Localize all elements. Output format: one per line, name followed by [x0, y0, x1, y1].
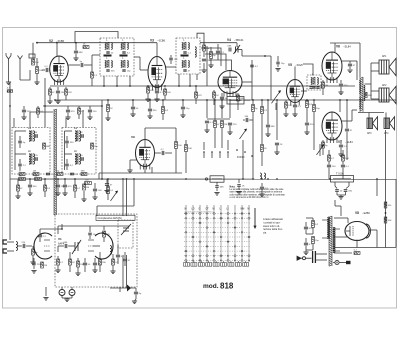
- resistor R20: [185, 145, 188, 152]
- resistor R1 input: [32, 59, 35, 65]
- capacitor T1c: [106, 70, 109, 71]
- svg-text:- EL84: - EL84: [343, 45, 351, 49]
- wire AP2 b: [371, 98, 379, 100]
- resistor R24: [261, 107, 264, 114]
- ground antenna: [6, 82, 11, 85]
- ground R16: [105, 118, 110, 121]
- resistor R39: [69, 259, 72, 265]
- capacitor C28b: [246, 118, 248, 122]
- capacitor C21 V7: [339, 145, 343, 147]
- wire x252 up: [251, 60, 253, 82]
- wire vertical x207: [206, 46, 208, 86]
- svg-text:10K: 10K: [98, 264, 102, 266]
- ground V5 cathode: [283, 114, 288, 117]
- resistor R11: [213, 92, 216, 98]
- wire ant in bottom: [7, 250, 10, 252]
- core T1d: [123, 60, 125, 68]
- ground C30: [304, 132, 309, 135]
- wire T5 left rail: [14, 131, 16, 170]
- capacitor C27: [228, 123, 232, 125]
- resistor R33a: [33, 173, 39, 176]
- resistor R14 V6: [322, 82, 325, 88]
- switch contact circles: [185, 212, 251, 261]
- wire x239 stub: [238, 179, 240, 183]
- tube V2: [50, 56, 69, 85]
- svg-text:V5: V5: [288, 63, 292, 67]
- svg-text:AP1: AP1: [382, 55, 387, 58]
- wire can2 down2: [189, 74, 191, 86]
- resistor R33: [35, 178, 42, 181]
- capacitor C49 ps: [304, 243, 308, 245]
- capacitor C57: [105, 184, 109, 186]
- switch coil connector row: [184, 261, 249, 266]
- svg-text:1M: 1M: [86, 187, 89, 189]
- wire staircase b: [205, 54, 226, 70]
- wire AP1 b: [371, 70, 379, 72]
- ground C66: [347, 70, 352, 73]
- ground C36: [27, 193, 32, 196]
- wire can1 out down: [129, 76, 131, 86]
- ground C65: [31, 271, 36, 274]
- core T5a: [30, 131, 32, 142]
- wire drop 1 at x207: [206, 100, 208, 118]
- resistor R54: [57, 259, 60, 265]
- svg-text:68K: 68K: [271, 126, 275, 128]
- IF can T3 (dashed box): [307, 75, 321, 90]
- wire bus y100: [55, 99, 396, 101]
- coil T1d secondary: [127, 61, 128, 68]
- ground C51: [65, 117, 70, 120]
- wire x271 down: [270, 56, 272, 100]
- capacitor C54b: [276, 62, 279, 64]
- ground R38: [30, 262, 35, 265]
- core T6b: [76, 154, 78, 165]
- capacitor C15 det: [229, 48, 231, 52]
- core T5b: [30, 154, 32, 165]
- core T1a: [107, 42, 109, 50]
- wire T5 top link: [15, 130, 26, 132]
- resistor R50: [354, 252, 360, 255]
- tube V8: [345, 222, 371, 241]
- ground C29: [274, 152, 279, 155]
- ground C22: [130, 114, 135, 117]
- resistor R8: [164, 89, 167, 95]
- capacitor C60: [123, 259, 127, 261]
- wire x262 down: [261, 124, 263, 144]
- svg-text:1M: 1M: [33, 171, 36, 173]
- resistor R16: [107, 105, 110, 112]
- svg-text:Nota.: Nota.: [230, 185, 236, 188]
- wire right rail x385: [385, 130, 387, 248]
- ground x46: [43, 298, 48, 301]
- wire to output transformer top: [359, 43, 361, 77]
- capacitor T1d: [122, 70, 125, 71]
- svg-text:V6: V6: [336, 45, 340, 49]
- resistor R3 V2 cathode: [49, 89, 52, 95]
- capacitor C16: [220, 97, 224, 99]
- wire V6 plate to OT: [342, 60, 357, 62]
- wire tuner top rail: [58, 225, 130, 227]
- ground C10: [154, 99, 159, 102]
- speaker AP4: [384, 117, 395, 130]
- capacitor C39 tuner in: [23, 244, 25, 248]
- wire y173 link: [99, 172, 182, 174]
- wire cap join r: [346, 186, 349, 189]
- wire AP1 a: [371, 62, 379, 64]
- input coil L14: [16, 242, 18, 251]
- resistor R21: [214, 121, 217, 128]
- capacitor C19: [293, 105, 297, 107]
- wire to ground row: [83, 191, 85, 199]
- ground C21: [338, 154, 343, 157]
- grid feed stubs: [186, 205, 249, 210]
- wire sw to T8 a: [315, 253, 327, 255]
- svg-text:V1: V1: [58, 237, 62, 241]
- wire V6 plate top: [330, 42, 360, 44]
- svg-text:FONO: FONO: [237, 155, 245, 159]
- IF transformer can T2 (dashed box): [176, 38, 200, 74]
- wire V8 cathode down: [356, 240, 358, 248]
- capacitor C38: [93, 189, 97, 191]
- resistor R32: [19, 178, 26, 181]
- wire box out: [244, 99, 250, 101]
- wire x99 stub: [98, 173, 100, 179]
- ratio detector can T6 (dashed box): [62, 128, 96, 175]
- capacitor C26: [205, 121, 209, 123]
- resistor R51: [342, 155, 345, 161]
- svg-text:V4: V4: [227, 38, 231, 42]
- antenna A1 (FM dipole): [8, 59, 10, 82]
- resistor R19: [175, 142, 178, 149]
- svg-text:- 6AV6: - 6AV6: [295, 63, 303, 67]
- wire V3 plate to can2: [166, 66, 176, 68]
- wire block to caps l: [334, 182, 336, 186]
- capacitor C23: [148, 109, 152, 111]
- ground C16: [219, 106, 224, 109]
- wire T6 mid link: [65, 153, 73, 155]
- capacitor C47 line: [344, 190, 348, 192]
- svg-text:1M: 1M: [325, 85, 328, 87]
- resistor R2: [36, 67, 39, 74]
- wire drop 2 at x215: [214, 100, 216, 118]
- ground C23: [147, 116, 152, 119]
- tube V9: [136, 140, 155, 170]
- wire V9 pin ext2: [151, 167, 153, 173]
- capacitor C46 line: [335, 190, 339, 192]
- lamp LP1: [335, 260, 339, 264]
- junction node dots: [9, 42, 378, 230]
- capacitor C32: [18, 141, 22, 143]
- fuse F1: [346, 261, 351, 264]
- coil T6bb: [79, 154, 80, 164]
- boxed resistor block mid: [227, 97, 244, 105]
- wire stub x90: [89, 226, 91, 232]
- core T2a: [184, 42, 186, 50]
- capacitor C31: [345, 129, 349, 131]
- ground ps column: [303, 252, 308, 255]
- tube V4: [218, 71, 242, 97]
- ground R34b: [15, 196, 20, 199]
- svg-text:68K: 68K: [81, 171, 85, 173]
- ground C28: [265, 134, 270, 137]
- wire disc top: [203, 42, 205, 45]
- capacitor C37b: [56, 185, 60, 187]
- ground C54b: [275, 69, 280, 72]
- resistor R56: [112, 259, 115, 265]
- ground disc: [201, 70, 206, 73]
- wire staircase a: [201, 48, 221, 66]
- wire ant link b: [10, 250, 14, 252]
- wire R19 ext: [175, 160, 177, 173]
- capacitor C61: [169, 58, 173, 60]
- wire V5 top: [294, 67, 296, 80]
- output transformer primary winding: [359, 80, 360, 93]
- wire x228 down: [227, 140, 229, 150]
- wire x204 down: [203, 142, 205, 150]
- wire V4 plate right: [242, 81, 252, 83]
- output transformer secondary winding: [364, 85, 365, 100]
- wire bottom speakers feed: [358, 112, 384, 114]
- capacitor C36b: [70, 173, 74, 175]
- svg-text:- 6CB6: - 6CB6: [157, 39, 166, 43]
- wire can1 to bus: [103, 76, 105, 86]
- ground V9: [127, 170, 132, 173]
- wire ps top: [306, 217, 313, 219]
- FM tuner unit (dashed box): [55, 214, 137, 287]
- wire x347: [346, 100, 348, 128]
- node y56: [264, 55, 266, 57]
- mains plug: [297, 256, 312, 260]
- power transformer T8 core: [329, 216, 332, 266]
- arrow direction indicator: [254, 208, 256, 226]
- wire AF feed down: [96, 206, 98, 216]
- capacitor C59: [93, 263, 97, 265]
- wire drop x126: [126, 255, 128, 288]
- capacitor C37: [63, 185, 67, 187]
- trimmer slug T1 left: [104, 55, 112, 57]
- capacitor C40: [38, 235, 42, 237]
- svg-text:10K: 10K: [98, 190, 102, 192]
- capacitor C33: [18, 164, 22, 166]
- capacitor C4 plate: [81, 63, 83, 67]
- wire x253 to bus179: [252, 120, 254, 179]
- resistor R32a: [19, 173, 25, 176]
- wire T5b up: [29, 112, 31, 128]
- wire vertical to V4 trimmer: [236, 43, 238, 47]
- wire x340: [339, 100, 341, 112]
- resistor R25: [306, 101, 309, 108]
- core T2b: [184, 60, 186, 68]
- wire bus to tuner b: [126, 179, 128, 216]
- capacitor C42: [83, 263, 87, 265]
- capacitor T5ac: [36, 134, 37, 138]
- wire vertical x10: [9, 82, 11, 240]
- resistor R52 speaker net: [365, 93, 367, 98]
- capacitor C56: [341, 165, 345, 167]
- ground C37b: [55, 193, 60, 196]
- wire R2 bottom: [36, 74, 38, 83]
- capacitor C34: [65, 141, 69, 143]
- switch contacts row FONO: [203, 151, 205, 153]
- capacitor T1a: [106, 52, 109, 53]
- resistor R23b: [261, 145, 264, 152]
- T8 secondary winding: [333, 227, 334, 252]
- piano-key switch matrix grid: [184, 210, 251, 261]
- wire to C2: [42, 69, 45, 71]
- wire T6 up1: [65, 118, 67, 128]
- coil T2b secondary: [188, 61, 189, 68]
- wire C54b top: [277, 56, 279, 61]
- wire y56 right: [242, 55, 271, 57]
- capacitor C64: [237, 185, 240, 187]
- capacitor C48 ps: [304, 227, 308, 229]
- wire C65 top: [33, 258, 35, 262]
- resistor R53: [103, 231, 106, 237]
- resistor R18: [195, 92, 198, 98]
- wire V8 down: [376, 230, 378, 248]
- capacitor C3 V2: [56, 91, 60, 93]
- wire bus to tuner a: [122, 179, 124, 216]
- wire CE join: [62, 297, 72, 299]
- wire ant in top: [7, 241, 10, 243]
- wire x215 down: [214, 134, 216, 148]
- svg-text:- EL84: - EL84: [345, 140, 353, 144]
- speaker AP1: [379, 58, 396, 75]
- svg-text:AP2: AP2: [382, 84, 387, 87]
- capacitor C43: [116, 255, 120, 257]
- ground C45: [259, 194, 264, 197]
- capacitor C36: [28, 185, 32, 187]
- T8 secondary winding inner: [334, 227, 335, 252]
- wire vertical x45: [44, 78, 46, 127]
- resistor R45 ps: [312, 237, 315, 244]
- wire ant link a: [10, 241, 14, 243]
- svg-text:AP3: AP3: [367, 132, 372, 135]
- wire C65 bottom: [33, 266, 35, 269]
- AM antenna coil T7: [260, 173, 262, 179]
- wire AP2 a: [371, 90, 379, 92]
- resistor R35b: [83, 184, 86, 190]
- coil T3a secondary: [317, 78, 318, 85]
- wire can1 gnd: [116, 76, 118, 86]
- capacitor C20 V6: [339, 84, 343, 86]
- wire T6 up2: [82, 110, 84, 128]
- svg-text:68K: 68K: [228, 46, 232, 48]
- resistor R33b: [81, 173, 87, 176]
- capacitor T3a: [312, 87, 315, 88]
- tuning capacitor CV1: [72, 240, 81, 254]
- resistor R34: [44, 185, 47, 191]
- coil L15 osc: [110, 246, 112, 255]
- resistor R27: [328, 155, 331, 161]
- capacitor C17: [309, 87, 312, 89]
- wire can2 down3: [196, 74, 198, 80]
- svg-text:68K: 68K: [220, 187, 224, 189]
- capacitor T5bc: [36, 157, 37, 161]
- wire can2 down1: [178, 74, 180, 86]
- ground C53: [21, 117, 26, 120]
- capacitor T2a: [183, 52, 186, 53]
- capacitor C52: [88, 110, 92, 112]
- coil T2b primary: [182, 61, 183, 68]
- ground C59: [92, 270, 97, 273]
- wire tuner gnd drop: [61, 287, 63, 290]
- coil T1c primary: [105, 61, 106, 68]
- wire stub x58: [57, 226, 59, 234]
- ground C64: [236, 192, 241, 195]
- resistor block R42 on bus: [210, 176, 224, 182]
- capacitor T6bc: [82, 157, 83, 161]
- svg-text:818: 818: [220, 282, 234, 291]
- wire to lamp: [333, 262, 335, 264]
- node filter mid: [385, 212, 387, 214]
- svg-text:1M: 1M: [34, 132, 37, 134]
- resistor R26: [313, 105, 316, 112]
- wire V9 top h: [145, 127, 176, 129]
- core T3a: [313, 77, 315, 85]
- capacitor C54: [250, 65, 254, 67]
- resistor R15 V7: [322, 142, 325, 148]
- diode D1 blob: [127, 285, 131, 292]
- svg-text:T 0,5A: T 0,5A: [336, 172, 344, 176]
- ground C52: [87, 117, 92, 120]
- capacitor C14: [216, 51, 220, 53]
- ground R55: [75, 273, 80, 276]
- wire join bottom y288: [110, 287, 136, 289]
- resistor R35: [74, 185, 77, 191]
- svg-text:cola regolato alla massima, ve: cola regolato alla massima, verso segnal…: [230, 193, 286, 196]
- wire V2 pin to R3: [49, 87, 51, 89]
- resistor R23: [252, 105, 255, 112]
- potentiometer P4 arrow: [111, 191, 118, 201]
- coil T2a secondary: [188, 43, 189, 50]
- speaker AP2: [379, 86, 396, 103]
- core T6a: [76, 131, 78, 142]
- ground V2 cathode: [47, 101, 52, 104]
- wire V5 plate: [301, 90, 307, 92]
- tube V7: [322, 112, 342, 143]
- ground electrolytics: [64, 299, 69, 302]
- svg-text:68K: 68K: [368, 95, 372, 97]
- resistor R10 disc: [210, 52, 213, 59]
- svg-text:68K: 68K: [64, 242, 68, 244]
- coil T5ab: [33, 131, 34, 141]
- resistor RF choke: [7, 90, 13, 92]
- wire up to can input: [91, 55, 93, 65]
- ground C62: [214, 193, 219, 196]
- wire bus y106: [43, 105, 102, 107]
- wire V9 pin ext: [144, 167, 146, 173]
- wire drop 4 at x230: [229, 100, 231, 118]
- resistor R4 screen: [65, 89, 68, 95]
- wire heater y253: [334, 252, 352, 254]
- ground C57: [104, 191, 109, 194]
- coil T5aa: [29, 131, 30, 141]
- svg-text:Le tensioni indicate nello sch: Le tensioni indicate nello schema sono s…: [230, 188, 285, 191]
- capacitor C10 V3: [155, 91, 159, 93]
- ground V3 cathode: [145, 99, 150, 102]
- wire stub x104: [103, 226, 105, 230]
- svg-text:10K: 10K: [288, 105, 292, 107]
- capacitor C51: [66, 110, 70, 112]
- wire CE2 top: [71, 287, 73, 290]
- capacitor C24: [181, 107, 185, 109]
- wire V1b out: [93, 245, 100, 247]
- wire tuner out: [119, 287, 121, 292]
- coil T3a primary: [311, 78, 312, 85]
- svg-text:AP4: AP4: [384, 132, 389, 135]
- wire caps join: [337, 194, 346, 196]
